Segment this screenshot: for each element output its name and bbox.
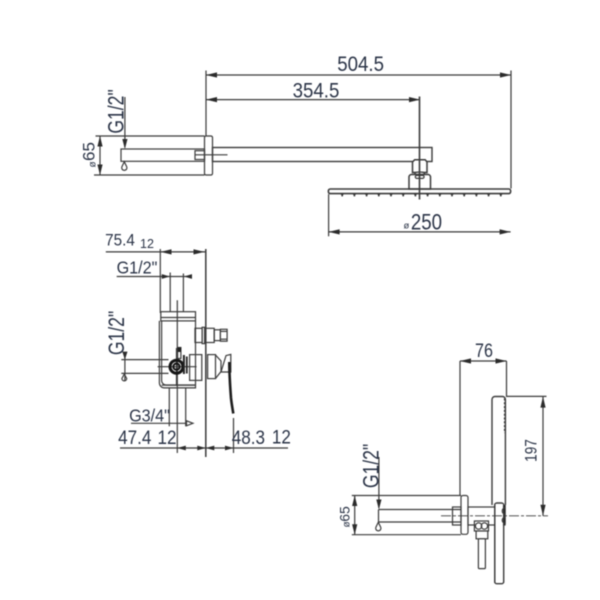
- dim 504.5 arrows: [206, 72, 511, 77]
- G3/4 leader: [131, 422, 187, 424]
- cone: [216, 355, 222, 379]
- hand shower head: [492, 397, 505, 506]
- dim 250 line: [329, 231, 511, 233]
- grip overlay to break outlet lines: [496, 504, 503, 582]
- svg-text:250: 250: [411, 211, 442, 235]
- ext 65 lines: [352, 495, 461, 497]
- outlet body: [468, 507, 505, 525]
- dim 75.4 line: [106, 251, 206, 253]
- svg-text:75.4: 75.4: [105, 231, 135, 250]
- knob inner: [173, 364, 179, 370]
- svg-text:G1/2": G1/2": [360, 444, 384, 488]
- ball detail: [415, 175, 424, 178]
- G1/2 left dim line: [124, 352, 126, 381]
- ext 65 top: [96, 135, 205, 137]
- dim 354.5 arrows: [206, 97, 420, 102]
- side outlet wide segment: [205, 328, 215, 342]
- ext head top: [506, 395, 547, 397]
- bottom dim arrows: [177, 446, 206, 451]
- hose tube: [478, 539, 485, 569]
- side outlet narrow segment: [214, 330, 220, 341]
- svg-text:65: 65: [80, 142, 99, 161]
- mixer body outer: [159, 321, 195, 388]
- svg-text:G1/2": G1/2": [117, 258, 158, 278]
- cartridge: [208, 355, 216, 379]
- head plate: [328, 189, 510, 194]
- ext 250 left: [328, 194, 330, 236]
- arm nut: [413, 160, 428, 173]
- svg-text:48.3: 48.3: [232, 427, 265, 448]
- side outlet end facet lines: [220, 330, 227, 332]
- knob centerline vertical: [176, 348, 178, 386]
- extension x205.8: [205, 249, 207, 457]
- G1/2 mixer arrows: [162, 274, 192, 279]
- svg-text:76: 76: [475, 340, 493, 362]
- ext 65 bottom: [94, 174, 205, 176]
- swivel ellipse: [415, 172, 425, 175]
- shower arm tube: [213, 148, 433, 162]
- G3/4 pipe below: [168, 389, 170, 427]
- dim 504.5 line: [206, 74, 511, 76]
- side outlet end cap: [220, 329, 227, 341]
- ball housing: [409, 175, 431, 190]
- svg-text:354.5: 354.5: [293, 80, 340, 103]
- nipple: [453, 507, 462, 525]
- bottom dim line mixer: [120, 447, 288, 449]
- side outlet collar: [202, 327, 205, 343]
- spray dashes: [504, 399, 506, 434]
- inlet pipe right edge: [182, 274, 184, 312]
- arm inner line: [195, 154, 228, 156]
- lever ext to dim: [233, 418, 235, 453]
- dark bars right of knob: [183, 355, 185, 374]
- dim 76 line: [460, 360, 507, 362]
- outlet tube lines: [379, 509, 462, 511]
- dim 197 arrows: [540, 397, 545, 516]
- G1/2 dim line (top arm): [124, 97, 126, 148]
- extension line left x206: [205, 71, 207, 136]
- knob centerline horizontal: [158, 366, 197, 368]
- wall pipe (arm inlet): [121, 149, 205, 161]
- hex stop on arm: [195, 151, 205, 160]
- holder notch upper: [502, 508, 505, 515]
- mixer body inner: [162, 321, 195, 385]
- swivel joint lines: [413, 172, 428, 174]
- svg-text:G1/2": G1/2": [105, 89, 129, 133]
- handle base: [221, 354, 231, 372]
- dim 354.5 line: [206, 99, 420, 101]
- dim 76 arrows: [460, 358, 507, 363]
- G1/2 teardrop (top arm): [122, 162, 127, 171]
- knob stub above: [178, 348, 181, 359]
- side outlet neck: [195, 328, 202, 342]
- escutcheon: [190, 355, 202, 381]
- dim G1/2 line (mixer top): [117, 276, 192, 278]
- body base line: [162, 384, 196, 386]
- handle lever: [229, 362, 233, 414]
- holder right dark bar: [504, 505, 506, 525]
- dim 65 (hand shower): [354, 496, 356, 535]
- G1/2 dim (hand shower): [378, 457, 380, 508]
- dim 197 line: [542, 397, 544, 516]
- extension line right x511: [510, 71, 512, 189]
- ext right x506.5: [506, 361, 508, 396]
- holder notch lower: [502, 517, 505, 524]
- G1/2 left arrows: [122, 352, 127, 360]
- svg-text:12: 12: [140, 237, 154, 251]
- mixer centerline: [176, 300, 178, 453]
- wall flange (arm): [205, 136, 213, 175]
- hand shower grip: [495, 503, 504, 584]
- svg-text:65: 65: [337, 506, 353, 522]
- mixer cap: [161, 312, 196, 321]
- svg-text:ø: ø: [88, 161, 99, 167]
- cap inner line: [161, 317, 196, 319]
- dim 65 line (top): [99, 136, 101, 175]
- hose connector: [476, 531, 488, 539]
- centerline of head x419.5: [419, 97, 421, 200]
- svg-text:504.5: 504.5: [337, 53, 384, 76]
- svg-text:G3/4": G3/4": [129, 406, 170, 426]
- G1/2 arrow down (top arm): [122, 139, 127, 149]
- hose nut: [474, 521, 488, 531]
- centerline outlet: [441, 515, 548, 517]
- svg-text:47.4: 47.4: [118, 427, 151, 448]
- inlet pipe left edge: [169, 273, 171, 312]
- knob outer ring: [170, 360, 183, 373]
- flange (hand shower): [461, 496, 468, 535]
- G1/2 left ext lines: [121, 359, 168, 361]
- dim 75.4 arrows: [161, 249, 205, 254]
- dim 65 arrows (top): [97, 136, 102, 175]
- svg-text:12: 12: [272, 427, 291, 448]
- dim 250 arrows: [329, 229, 511, 234]
- svg-text:ø: ø: [342, 521, 353, 527]
- svg-text:12: 12: [157, 427, 176, 448]
- ext left x460: [459, 361, 461, 496]
- svg-text:197: 197: [522, 439, 541, 462]
- svg-text:G1/2": G1/2": [105, 311, 129, 355]
- nozzles row: [341, 194, 502, 197]
- wall plane line (mixer): [159, 249, 161, 313]
- svg-text:ø: ø: [404, 221, 410, 232]
